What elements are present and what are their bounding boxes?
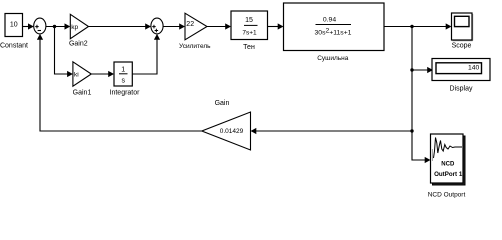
svg-text:OutPort 1: OutPort 1 — [434, 171, 463, 178]
wire Sum2 to Усилитель — [163, 23, 185, 29]
summing junction Sum1 — [34, 18, 46, 34]
svg-text:s: s — [121, 78, 125, 85]
svg-text:Integrator: Integrator — [110, 90, 141, 97]
svg-text:0.94: 0.94 — [323, 17, 336, 24]
svg-text:30s2+11s+1: 30s2+11s+1 — [315, 28, 352, 37]
block Тен (transfer fcn 15/(7s+1)) — [231, 11, 268, 40]
wire Integrator to Sum2 (up into bottom) — [132, 34, 160, 74]
svg-text:15: 15 — [245, 17, 253, 24]
wire branch down to Display — [412, 27, 433, 74]
svg-text:Gain: Gain — [215, 100, 230, 107]
junction node at Scope wire — [410, 25, 413, 28]
constant block Constant — [5, 14, 23, 37]
junction node at Display branch — [410, 68, 413, 71]
svg-text:Gain2: Gain2 — [69, 41, 88, 48]
wire Сушильна to Scope — [384, 23, 452, 29]
svg-text:140: 140 — [468, 65, 480, 72]
wire Constant to Sum1 — [23, 23, 34, 29]
svg-text:Display: Display — [450, 86, 473, 93]
wire branch Sum1 output down to Gain1 — [55, 27, 73, 78]
svg-text:NCD Outport: NCD Outport — [428, 191, 466, 198]
svg-text:Scope: Scope — [452, 42, 472, 49]
block Scope — [452, 13, 473, 41]
svg-text:1: 1 — [121, 66, 125, 73]
wire feedback to Gain (0.01429) — [251, 128, 413, 134]
svg-text:0.01429: 0.01429 — [220, 128, 244, 135]
gain Gain (0.01429, pointing left) — [202, 112, 251, 150]
gain Gain2 — [70, 14, 88, 38]
gain Усилитель (22) — [185, 13, 207, 40]
wire Gain2 to Sum2 — [89, 23, 152, 29]
svg-text:Тен: Тен — [243, 44, 255, 51]
gain Gain1 — [73, 62, 91, 86]
block Сушильна (transfer fcn 0.94/(30s²+11s+1)) — [284, 3, 385, 51]
wire Sum1 to Gain2 — [46, 23, 70, 29]
svg-text:Сушильна: Сушильна — [317, 55, 349, 62]
junction node after Sum1 — [53, 25, 56, 28]
wire Тен to Сушильна — [268, 23, 284, 29]
block Display — [432, 59, 490, 81]
junction node at feedback branch — [410, 129, 413, 132]
wire branch down to NCD OutPort — [412, 70, 431, 163]
svg-text:ki: ki — [74, 72, 79, 79]
wire Gain to Sum1 (feedback up into bottom) — [37, 34, 202, 131]
block NCD OutPort 1 — [431, 134, 466, 185]
svg-text:10: 10 — [10, 21, 18, 28]
wire Усилитель to Тен — [207, 23, 231, 29]
svg-text:22: 22 — [186, 21, 194, 28]
svg-text:NCD: NCD — [441, 162, 455, 168]
svg-text:Constant: Constant — [0, 43, 28, 50]
summing junction Sum2 — [151, 18, 163, 34]
svg-text:Усилитель: Усилитель — [179, 43, 211, 50]
wire Gain1 to Integrator — [91, 71, 114, 77]
svg-text:kp: kp — [71, 24, 78, 31]
svg-text:Gain1: Gain1 — [73, 90, 92, 97]
block Integrator (1/s) — [114, 62, 132, 86]
svg-text:7s+1: 7s+1 — [242, 29, 257, 36]
